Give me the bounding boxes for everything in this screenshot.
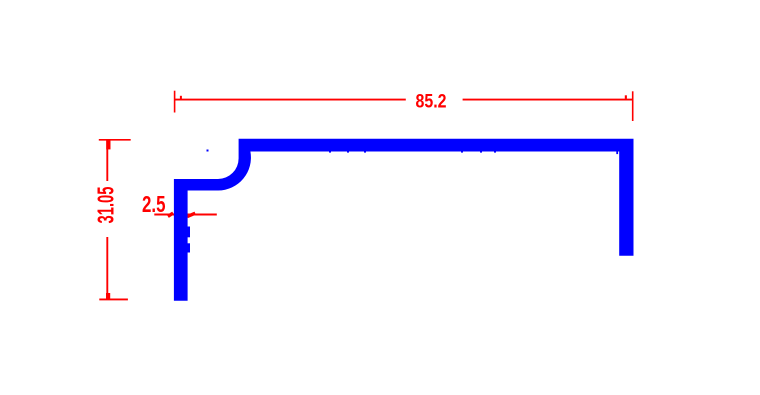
profile artifact nub 2 on left leg xyxy=(187,243,190,252)
svg-text:2.5: 2.5 xyxy=(142,191,166,217)
extension line top of 31.05 dimension xyxy=(99,139,131,141)
dimension line 85.2 right segment xyxy=(463,99,633,101)
dimension line 2.5 (horizontal, partially hidden under profile) xyxy=(154,214,217,216)
dimension line 31.05 lower segment xyxy=(106,237,108,299)
extension line right of 85.2 dimension xyxy=(632,91,634,121)
tick bottom of 31.05 dimension xyxy=(106,293,110,299)
svg-text:31.05: 31.05 xyxy=(93,186,119,223)
profile artifact nub 1 on left leg xyxy=(187,227,190,238)
profile artifact nubs under top bar xyxy=(329,151,331,152)
tick top of 31.05 dimension xyxy=(106,140,110,149)
tick right of 2.5 dimension xyxy=(187,213,195,216)
profile artifact dot xyxy=(207,150,209,152)
dimension line 31.05 upper segment xyxy=(106,140,108,181)
svg-text:85.2: 85.2 xyxy=(416,90,447,112)
tick right of 85.2 dimension xyxy=(625,95,627,99)
tick left of 2.5 dimension xyxy=(168,213,173,216)
profile outline (blue extrusion cross-section) xyxy=(174,139,634,301)
profile artifact nub at right leg inner corner xyxy=(616,152,618,155)
extension line bottom of 31.05 dimension xyxy=(99,298,128,300)
dimension line 85.2 left segment xyxy=(175,99,406,101)
extension line left of 85.2 dimension xyxy=(174,91,176,113)
tick left of 85.2 dimension xyxy=(180,96,182,99)
